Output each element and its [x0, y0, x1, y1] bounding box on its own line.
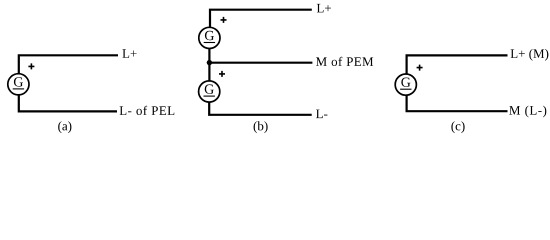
caption (a): [58, 121, 71, 133]
polarity + (a): [28, 63, 34, 69]
polarity + (c): [417, 65, 423, 71]
generator G2 (b): [199, 81, 220, 102]
junction node M: [207, 60, 212, 65]
polarity + G1 (b): [221, 17, 227, 23]
label M of PEM (b): [316, 57, 373, 66]
wire L+ (b): [210, 10, 312, 28]
wire between generators (b): [208, 49, 210, 82]
generator G (a): [8, 74, 29, 95]
label L+ (b): [317, 4, 331, 13]
label L+ (a): [122, 49, 136, 58]
wire L- (b): [209, 102, 312, 115]
caption (b): [254, 121, 268, 133]
wire L- (a): [19, 95, 117, 112]
label L- of PEL (a): [120, 106, 175, 115]
wire M (L-) (c): [407, 95, 508, 111]
wire L+ (M) (c): [407, 55, 508, 74]
wire M of PEM (b): [209, 62, 312, 64]
label L+ (M) (c): [511, 49, 549, 61]
polarity + G2 (b): [219, 71, 225, 77]
generator G1 (b): [199, 27, 220, 48]
caption (c): [451, 121, 464, 133]
wire L+ (a): [19, 55, 118, 73]
generator G (c): [395, 74, 416, 95]
label L- (b): [316, 110, 327, 119]
label M (L-) (c): [509, 106, 546, 118]
